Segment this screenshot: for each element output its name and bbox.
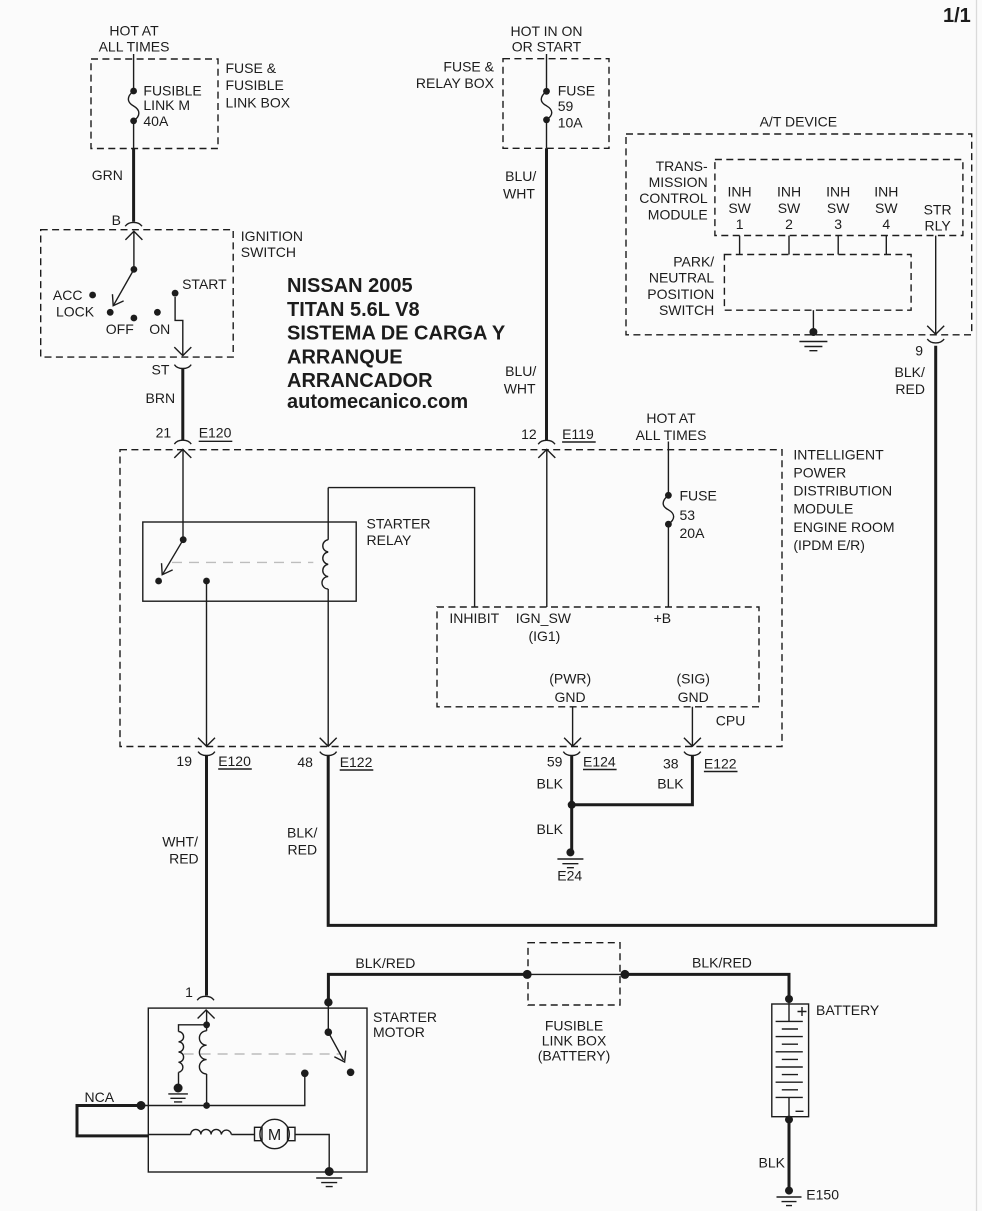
svg-text:ALL TIMES: ALL TIMES (99, 39, 170, 55)
svg-text:RELAY BOX: RELAY BOX (416, 75, 495, 91)
svg-text:ARRANQUE: ARRANQUE (287, 346, 403, 368)
svg-text:ARRANCADOR: ARRANCADOR (287, 370, 433, 392)
svg-text:SW: SW (778, 200, 801, 216)
svg-text:SWITCH: SWITCH (241, 244, 296, 260)
svg-text:INH: INH (777, 184, 801, 200)
svg-text:GND: GND (554, 689, 585, 705)
svg-text:E24: E24 (557, 868, 582, 884)
svg-text:(IPDM E/R): (IPDM E/R) (793, 537, 865, 553)
svg-text:E120: E120 (199, 424, 232, 440)
svg-text:59: 59 (558, 98, 574, 114)
svg-text:GRN: GRN (92, 167, 123, 183)
svg-text:3: 3 (834, 216, 842, 232)
svg-text:BLK/RED: BLK/RED (355, 955, 415, 971)
svg-text:MODULE: MODULE (648, 206, 708, 222)
svg-text:PARK/: PARK/ (673, 254, 714, 270)
svg-text:STR: STR (924, 201, 952, 217)
svg-text:BLK: BLK (537, 775, 564, 791)
svg-text:BLK/: BLK/ (287, 824, 317, 840)
svg-text:E122: E122 (704, 756, 737, 772)
svg-text:SW: SW (728, 200, 751, 216)
svg-text:9: 9 (915, 343, 923, 359)
svg-text:48: 48 (297, 754, 313, 770)
svg-text:BLK: BLK (759, 1155, 786, 1171)
svg-text:automecanico.com: automecanico.com (287, 391, 468, 413)
svg-text:CONTROL: CONTROL (639, 190, 708, 206)
svg-text:53: 53 (680, 507, 696, 523)
svg-text:OFF: OFF (106, 321, 134, 337)
svg-text:2: 2 (785, 216, 793, 232)
svg-text:BLK: BLK (657, 775, 684, 791)
svg-text:NCA: NCA (85, 1089, 115, 1105)
svg-text:BLU/: BLU/ (505, 363, 536, 379)
svg-text:POSITION: POSITION (647, 286, 714, 302)
svg-text:ON: ON (149, 321, 170, 337)
svg-text:INTELLIGENT: INTELLIGENT (793, 447, 884, 463)
svg-text:1: 1 (185, 984, 193, 1000)
svg-text:E119: E119 (562, 426, 594, 442)
svg-text:CPU: CPU (716, 713, 746, 729)
svg-text:E122: E122 (340, 754, 373, 770)
svg-text:INHIBIT: INHIBIT (449, 610, 499, 626)
svg-text:POWER: POWER (793, 465, 846, 481)
svg-text:M: M (268, 1127, 281, 1144)
svg-text:GND: GND (678, 689, 709, 705)
svg-text:START: START (182, 276, 227, 292)
svg-text:OR START: OR START (512, 39, 582, 55)
svg-text:MOTOR: MOTOR (373, 1024, 425, 1040)
svg-text:SW: SW (827, 200, 850, 216)
svg-text:20A: 20A (680, 525, 706, 541)
svg-text:WHT: WHT (504, 381, 536, 397)
svg-text:4: 4 (882, 216, 890, 232)
svg-text:TRANS-: TRANS- (656, 158, 708, 174)
svg-text:BLU/: BLU/ (505, 168, 536, 184)
svg-text:FUSE &: FUSE & (226, 60, 277, 76)
svg-text:BATTERY: BATTERY (816, 1002, 880, 1018)
svg-text:STARTER: STARTER (367, 516, 431, 532)
svg-text:WHT/: WHT/ (162, 834, 198, 850)
svg-text:IGN_SW: IGN_SW (516, 610, 572, 626)
svg-text:1/1: 1/1 (943, 5, 971, 27)
svg-text:E120: E120 (218, 753, 251, 769)
svg-text:(SIG): (SIG) (676, 670, 709, 686)
svg-text:FUSIBLE: FUSIBLE (226, 77, 284, 93)
svg-text:E150: E150 (806, 1187, 839, 1203)
svg-text:40A: 40A (143, 113, 169, 129)
svg-text:A/T DEVICE: A/T DEVICE (760, 114, 838, 130)
svg-text:FUSE: FUSE (680, 488, 717, 504)
svg-text:INH: INH (826, 184, 850, 200)
svg-text:SWITCH: SWITCH (659, 302, 714, 318)
svg-text:RED: RED (169, 851, 199, 867)
svg-text:E124: E124 (583, 754, 616, 770)
svg-text:TITAN 5.6L V8: TITAN 5.6L V8 (287, 299, 420, 321)
svg-text:INH: INH (874, 184, 898, 200)
svg-text:ACC: ACC (53, 287, 83, 303)
svg-text:BLK/RED: BLK/RED (692, 955, 752, 971)
svg-text:MISSION: MISSION (649, 174, 708, 190)
svg-text:MODULE: MODULE (793, 501, 853, 517)
svg-text:ST: ST (152, 361, 170, 377)
svg-text:LINK M: LINK M (143, 97, 190, 113)
svg-text:1: 1 (736, 216, 744, 232)
svg-text:SW: SW (875, 200, 898, 216)
svg-text:10A: 10A (558, 115, 584, 131)
svg-text:STARTER: STARTER (373, 1009, 437, 1025)
svg-text:LOCK: LOCK (56, 304, 95, 320)
svg-text:ALL TIMES: ALL TIMES (636, 427, 707, 443)
svg-text:INH: INH (728, 184, 752, 200)
svg-text:59: 59 (547, 754, 563, 770)
svg-text:ENGINE ROOM: ENGINE ROOM (793, 519, 894, 535)
svg-text:(BATTERY): (BATTERY) (538, 1048, 611, 1064)
svg-text:38: 38 (663, 756, 679, 772)
svg-text:12: 12 (521, 426, 537, 442)
svg-text:RED: RED (895, 381, 925, 397)
svg-text:+B: +B (654, 610, 672, 626)
svg-text:RED: RED (288, 842, 318, 858)
svg-text:LINK BOX: LINK BOX (542, 1033, 607, 1049)
svg-text:RLY: RLY (924, 218, 951, 234)
svg-text:SISTEMA DE CARGA Y: SISTEMA DE CARGA Y (287, 323, 506, 345)
svg-text:21: 21 (156, 424, 172, 440)
svg-text:HOT AT: HOT AT (109, 23, 159, 39)
svg-text:FUSE &: FUSE & (443, 59, 494, 75)
svg-text:BLK/: BLK/ (895, 364, 925, 380)
svg-text:LINK BOX: LINK BOX (226, 94, 291, 110)
svg-text:DISTRIBUTION: DISTRIBUTION (793, 483, 892, 499)
svg-text:BLK: BLK (537, 821, 564, 837)
svg-text:(PWR): (PWR) (549, 670, 591, 686)
svg-text:WHT: WHT (503, 186, 535, 202)
svg-text:FUSIBLE: FUSIBLE (545, 1018, 603, 1034)
svg-text:FUSE: FUSE (558, 82, 595, 98)
svg-text:(IG1): (IG1) (528, 628, 560, 644)
svg-text:HOT IN ON: HOT IN ON (510, 23, 582, 39)
svg-text:HOT AT: HOT AT (646, 410, 696, 426)
svg-text:RELAY: RELAY (367, 532, 413, 548)
svg-text:NEUTRAL: NEUTRAL (649, 270, 715, 286)
svg-text:19: 19 (176, 753, 192, 769)
svg-text:B: B (112, 212, 121, 228)
svg-text:BRN: BRN (146, 390, 176, 406)
svg-text:IGNITION: IGNITION (241, 228, 303, 244)
svg-text:NISSAN 2005: NISSAN 2005 (287, 275, 413, 297)
